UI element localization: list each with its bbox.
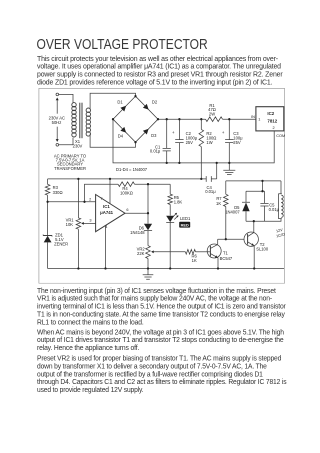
svg-text:D2: D2 [152,99,158,104]
svg-text:100KΩ: 100KΩ [120,190,133,195]
svg-text:IN: IN [251,115,255,119]
svg-text:2: 2 [89,197,91,201]
svg-text:1K: 1K [192,258,197,263]
svg-text:0.01μ: 0.01μ [150,148,161,153]
svg-text:μA741: μA741 [100,210,113,215]
svg-text:50Hz: 50Hz [52,120,62,125]
svg-text:+: + [222,130,225,135]
svg-text:25V: 25V [186,140,194,145]
svg-text:ZENER: ZENER [54,241,68,246]
svg-text:IC1: IC1 [103,204,110,209]
svg-text:330Ω: 330Ω [53,190,63,195]
svg-text:1N4148: 1N4148 [130,230,145,235]
svg-text:1: 1 [258,117,260,121]
svg-text:0.01μ: 0.01μ [269,207,280,212]
svg-text:10K: 10K [66,222,74,227]
svg-text:2W: 2W [209,111,215,116]
svg-text:230V: 230V [73,143,83,148]
svg-text:2: 2 [273,126,275,130]
svg-text:BC547: BC547 [220,256,233,261]
svg-text:25V: 25V [233,140,241,145]
svg-text:D3: D3 [151,133,157,138]
svg-text:1W: 1W [206,140,212,145]
svg-text:6: 6 [126,208,128,212]
svg-text:RED: RED [181,223,189,227]
svg-text:D1-D4 = 1N4007: D1-D4 = 1N4007 [116,167,148,172]
svg-text:1C/O: 1C/O [276,232,285,238]
svg-text:1N4007: 1N4007 [225,209,240,214]
svg-text:IC2: IC2 [267,111,274,116]
svg-text:LED1: LED1 [180,216,191,221]
svg-text:D4: D4 [118,133,124,138]
svg-text:COM: COM [276,134,285,138]
svg-text:7812: 7812 [267,118,277,123]
svg-text:TRANSFORMER: TRANSFORMER [54,166,86,171]
svg-text:+: + [172,130,175,135]
svg-text:22K: 22K [137,251,145,256]
svg-text:0.01μ: 0.01μ [205,189,216,194]
svg-text:4: 4 [105,225,108,229]
svg-text:7: 7 [100,197,102,201]
svg-text:1.8K: 1.8K [174,199,183,204]
svg-text:D1: D1 [117,99,123,104]
svg-text:1K: 1K [216,201,221,206]
svg-text:3: 3 [89,218,91,222]
svg-text:SL100: SL100 [256,246,269,251]
